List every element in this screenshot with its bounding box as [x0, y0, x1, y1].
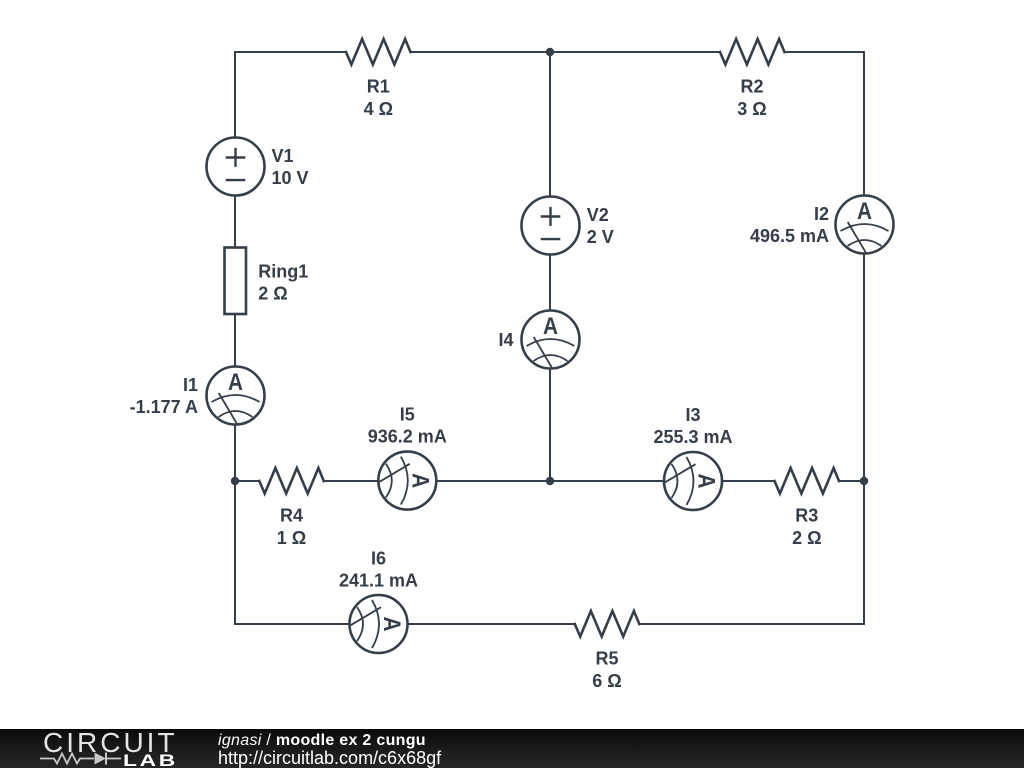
- svg-text:A: A: [378, 617, 405, 632]
- resistor R1: [346, 39, 411, 65]
- svg-text:R2: R2: [740, 77, 763, 97]
- wire V1 to Ring1: [234, 196, 236, 248]
- wire I5 to middle node: [436, 480, 664, 482]
- wire top right: [785, 51, 865, 53]
- CircuitLab logo LAB: [123, 752, 178, 768]
- logo squiggle: [0, 729, 220, 768]
- wire I6 to R5: [408, 623, 575, 625]
- ammeter I4: [522, 311, 580, 369]
- resistor R2: [720, 39, 785, 65]
- svg-text:V1: V1: [272, 146, 294, 166]
- CircuitLab logo word: [43, 729, 178, 757]
- svg-text:V2: V2: [587, 205, 609, 225]
- ammeter I2: [836, 196, 894, 254]
- footer bar: [0, 729, 1024, 768]
- svg-text:3 Ω: 3 Ω: [737, 99, 766, 119]
- svg-text:R3: R3: [795, 506, 818, 526]
- wire V2 to I4: [549, 255, 551, 311]
- wire R4 to I5: [324, 480, 379, 482]
- svg-text:2 V: 2 V: [587, 227, 614, 247]
- svg-text:-1.177 A: -1.177 A: [130, 397, 198, 417]
- resistor R3: [775, 468, 840, 494]
- wire I1 down to bottom: [234, 425, 236, 625]
- svg-text:I4: I4: [498, 330, 513, 350]
- voltage source V2: [522, 197, 580, 255]
- svg-text:496.5 mA: 496.5 mA: [750, 226, 829, 246]
- wire middle vertical upper: [549, 52, 551, 197]
- svg-text:A: A: [857, 198, 872, 225]
- svg-text:I3: I3: [685, 405, 700, 425]
- wire I3 to R3: [722, 480, 775, 482]
- svg-text:A: A: [228, 369, 243, 396]
- resistor Ring1: [225, 248, 247, 315]
- wire left vertical upper: [234, 52, 236, 138]
- node dot mid right: [860, 477, 868, 485]
- footer title: [218, 733, 426, 749]
- svg-text:2 Ω: 2 Ω: [792, 528, 821, 548]
- ammeter I1: [207, 367, 265, 425]
- wire bottom left: [235, 623, 350, 625]
- svg-text:I5: I5: [400, 405, 415, 425]
- svg-text:936.2 mA: 936.2 mA: [368, 427, 447, 447]
- node dot mid left: [231, 477, 239, 485]
- ammeter I6: [350, 595, 408, 653]
- svg-text:Ring1: Ring1: [258, 262, 308, 282]
- ammeter I5: [378, 452, 436, 510]
- ammeter I3: [664, 452, 722, 510]
- svg-text:A: A: [692, 474, 719, 489]
- svg-text:R5: R5: [595, 649, 618, 669]
- node dot top middle: [546, 48, 554, 56]
- svg-text:255.3 mA: 255.3 mA: [653, 427, 732, 447]
- voltage source V1: [207, 138, 265, 196]
- svg-text:6 Ω: 6 Ω: [592, 671, 621, 691]
- wire top middle: [411, 51, 721, 53]
- svg-text:4 Ω: 4 Ω: [364, 99, 393, 119]
- svg-text:I6: I6: [371, 548, 386, 568]
- resistor R5: [575, 611, 640, 637]
- svg-text:R4: R4: [280, 506, 303, 526]
- footer url: [218, 749, 441, 767]
- wire I4 to middle node: [549, 369, 551, 482]
- wire R5 to bottom right: [639, 623, 864, 625]
- wire R3 to right node: [839, 480, 864, 482]
- svg-text:10 V: 10 V: [272, 168, 309, 188]
- wire top left: [235, 51, 346, 53]
- svg-text:A: A: [543, 313, 558, 340]
- svg-text:R1: R1: [367, 77, 390, 97]
- svg-text:I1: I1: [183, 375, 198, 395]
- wire right vertical upper: [863, 52, 865, 196]
- node dot mid middle: [546, 477, 554, 485]
- svg-text:241.1 mA: 241.1 mA: [339, 570, 418, 590]
- wire Ring1 to I1: [234, 314, 236, 367]
- wire right vertical lower: [863, 254, 865, 625]
- svg-text:1 Ω: 1 Ω: [277, 528, 306, 548]
- svg-text:A: A: [407, 473, 434, 488]
- svg-text:2 Ω: 2 Ω: [258, 284, 287, 304]
- svg-text:I2: I2: [814, 204, 829, 224]
- wire mid horizontal left: [235, 480, 259, 482]
- resistor R4: [259, 468, 324, 494]
